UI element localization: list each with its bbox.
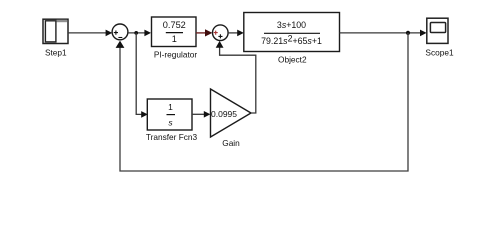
- svg-text:Object2: Object2: [278, 54, 307, 64]
- svg-text:Scope1: Scope1: [425, 47, 454, 57]
- svg-text:PI-regulator: PI-regulator: [154, 50, 198, 60]
- minus sign (bottom input): [118, 37, 122, 39]
- plus sign (left input): [114, 31, 118, 35]
- svg-text:0.0995: 0.0995: [211, 109, 237, 119]
- feedback wire Scope line to Sum1 (outer loop): [120, 33, 408, 171]
- svg-text:3s+100: 3s+100: [277, 20, 306, 30]
- svg-text:Transfer Fcn3: Transfer Fcn3: [146, 132, 198, 142]
- junction node after Sum1: [134, 31, 138, 35]
- transfer function block Object2: [244, 13, 340, 65]
- svg-text:79.21s2+65s+1: 79.21s2+65s+1: [261, 33, 322, 46]
- svg-text:1: 1: [172, 34, 177, 44]
- svg-text:0.752: 0.752: [163, 20, 186, 30]
- wire Object2 to Scope1: [340, 32, 422, 34]
- wire Step1 to Sum1: [68, 32, 107, 34]
- transfer function block PI-regulator: [152, 17, 198, 60]
- sum junction Sum1: [112, 24, 128, 40]
- branch wire down to Transfer Fcn3: [136, 33, 142, 115]
- gain block Gain: [211, 89, 252, 148]
- sum junction Sum2: [213, 25, 229, 41]
- svg-text:1: 1: [168, 102, 173, 112]
- feedback wire Gain to Sum2 (inner loop): [220, 47, 256, 113]
- plus sign (bottom input): [218, 34, 222, 38]
- step source Step1: [43, 19, 68, 57]
- transfer function block Transfer Fcn3: [146, 99, 198, 142]
- junction node on scope wire: [406, 31, 410, 35]
- svg-text:Step1: Step1: [45, 47, 67, 57]
- svg-text:Gain: Gain: [222, 138, 240, 148]
- wire Sum2 to Object2: [228, 32, 238, 34]
- red plus sign (left input): [214, 31, 218, 35]
- wire PI-regulator to Sum2 (highlighted dark red): [196, 32, 207, 34]
- wire Sum1 to PI-regulator: [128, 32, 146, 34]
- scope sink Scope1: [425, 18, 454, 57]
- wire Transfer Fcn3 to Gain: [192, 113, 205, 115]
